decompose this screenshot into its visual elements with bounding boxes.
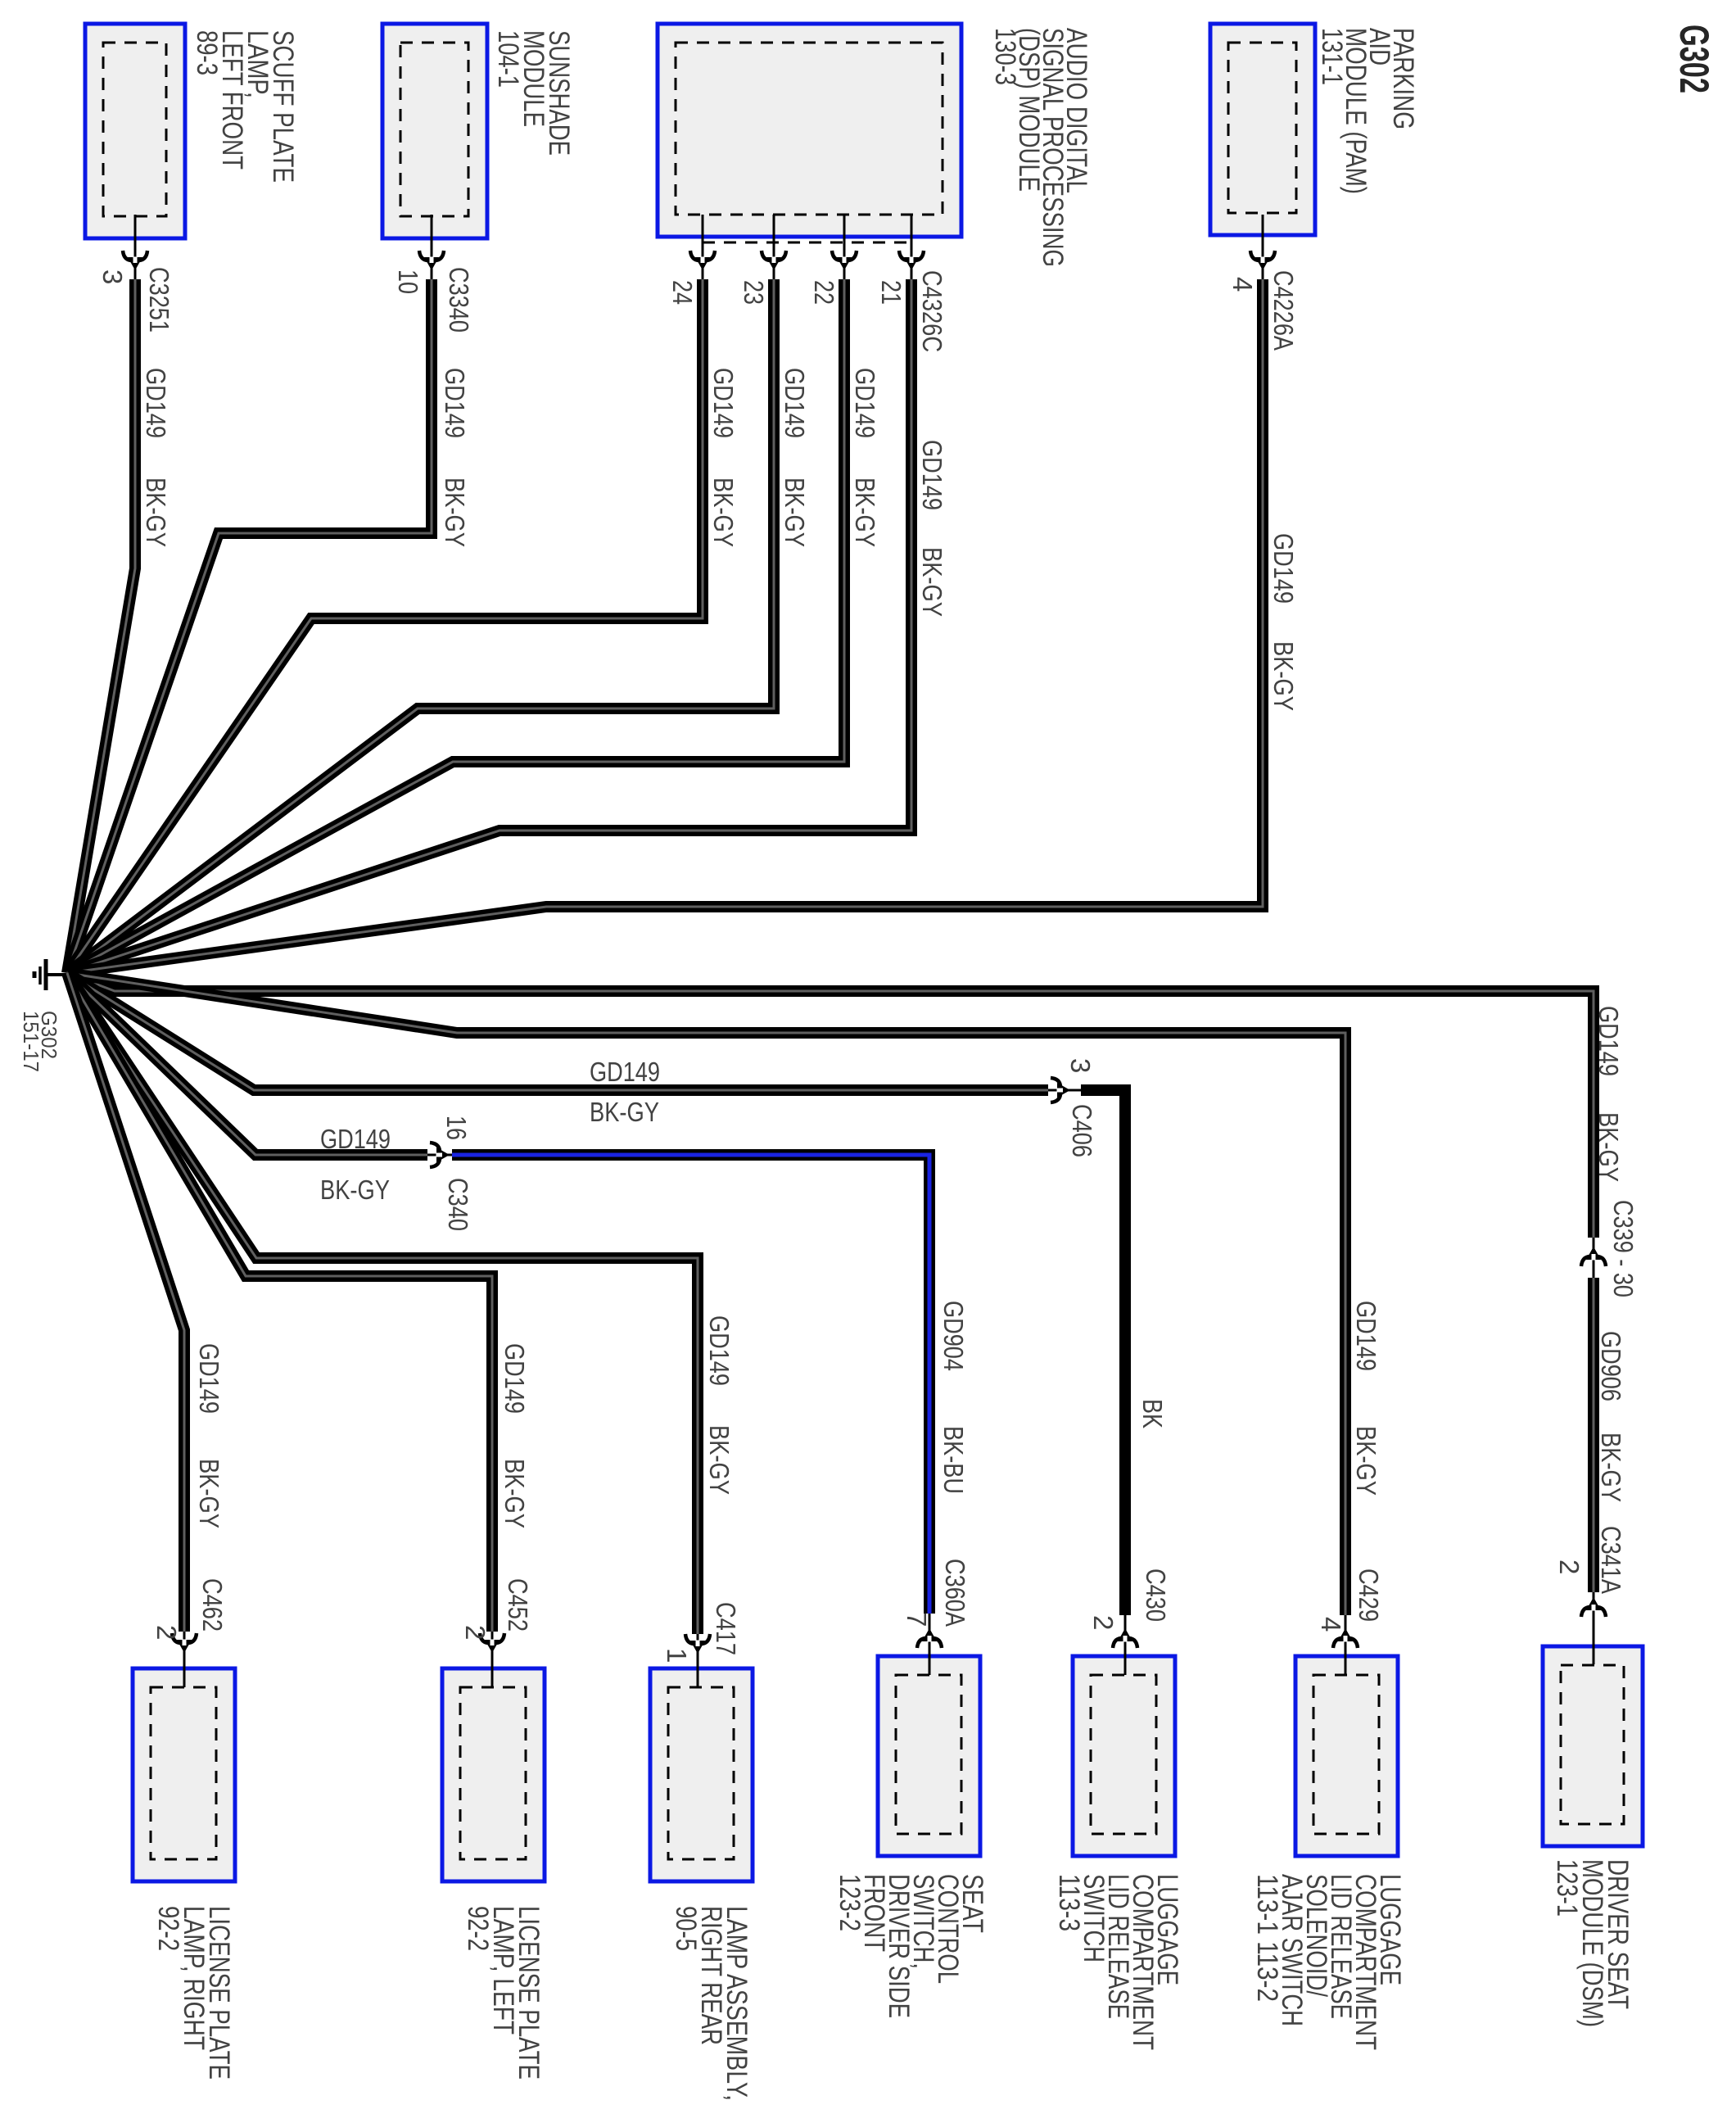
pin line C360A into seat switch box: [929, 1614, 931, 1675]
svg-text:C452: C452: [503, 1578, 533, 1632]
svg-text:7: 7: [902, 1612, 932, 1627]
label sunshade module: [492, 30, 575, 156]
svg-text:C430: C430: [1141, 1568, 1171, 1622]
svg-text:C462: C462: [197, 1578, 228, 1632]
ground G302 symbol: [34, 959, 67, 990]
label PAM module: [1316, 28, 1419, 194]
svg-text:BK-GY: BK-GY: [141, 478, 171, 547]
pin line C452 into license left box: [491, 1632, 494, 1687]
color BK-GY C429: [1351, 1426, 1381, 1496]
svg-text:C3251: C3251: [144, 267, 174, 333]
connector C341A: [1581, 1597, 1606, 1617]
pin line sunshade pin 10: [431, 215, 433, 279]
connector C4226A: [1250, 251, 1275, 270]
svg-text:10: 10: [393, 269, 423, 294]
wire GD149 BK-GY to DSP pin 23: [67, 279, 774, 973]
pin number 1 C417: [662, 1648, 692, 1663]
color BK-GY scuff: [141, 478, 171, 547]
pin line DSP pin 23: [773, 215, 775, 279]
connector label C462: [197, 1578, 228, 1632]
pin number 10 C3340: [393, 269, 423, 294]
svg-text:GD149: GD149: [320, 1124, 391, 1154]
connector label C452: [503, 1578, 533, 1632]
svg-text:22: 22: [809, 280, 839, 305]
module box: LUGGAGE LID RELEASE SOLENOID: [1295, 1656, 1398, 1856]
svg-text:2: 2: [1088, 1615, 1119, 1630]
wire GD149 BK-GY to DSP pin 21 (C4326C): [67, 279, 911, 973]
svg-text:GD149: GD149: [1351, 1301, 1381, 1371]
circuit GD149 scuff: [141, 368, 171, 438]
circuit GD149 DSP23: [780, 368, 810, 438]
connector C452: [480, 1633, 504, 1653]
color BK-GY DSP21: [917, 547, 947, 617]
label lamp assembly right rear: [670, 1906, 753, 2101]
connector label C4226A: [1268, 270, 1299, 351]
connector C360A: [917, 1628, 942, 1648]
svg-text:BK-GY: BK-GY: [1596, 1433, 1626, 1502]
wire GD149 BK-GY to C340: [67, 973, 427, 1155]
svg-text:GD906: GD906: [1596, 1331, 1626, 1401]
pin line C406 inline: [1048, 1089, 1081, 1092]
connector C339: [1581, 1247, 1606, 1266]
circuit GD149 C429: [1351, 1301, 1381, 1371]
pin number 23 DSP: [739, 280, 769, 305]
wire GD149 BK-GY to lamp assembly right rear (C417): [67, 973, 698, 1634]
wire GD149 BK-GY to scuff plate lamp (C3251): [67, 279, 135, 973]
svg-text:16: 16: [441, 1116, 472, 1140]
svg-text:GD149: GD149: [141, 368, 171, 438]
circuit GD149 sunshade: [440, 368, 470, 438]
svg-text:BK-GY: BK-GY: [1594, 1112, 1624, 1182]
svg-text:BK-BU: BK-BU: [938, 1426, 969, 1494]
wire GD149 BK-GY to license plate lamp left (C452): [67, 973, 492, 1632]
svg-text:C417: C417: [711, 1602, 741, 1655]
module box: SEAT CONTROL SWITCH: [878, 1656, 980, 1856]
pin line DSP pin 21: [911, 215, 913, 279]
pin line C462 into license right box: [183, 1632, 186, 1687]
connector label C360A: [940, 1559, 970, 1627]
pin number 2 C430: [1088, 1615, 1119, 1630]
pin line DSP pin 22: [843, 215, 846, 279]
module box: LICENSE PLATE LAMP LEFT: [442, 1668, 545, 1881]
connector label C430: [1141, 1568, 1171, 1622]
module box: LICENSE PLATE LAMP RIGHT: [133, 1668, 235, 1881]
svg-text:G302: G302: [1671, 25, 1717, 93]
svg-text:C339 - 30: C339 - 30: [1608, 1200, 1639, 1297]
svg-text:C360A: C360A: [940, 1559, 970, 1627]
label luggage lid solenoid: [1251, 1874, 1406, 2050]
svg-text:2: 2: [460, 1625, 491, 1640]
svg-text:GD149: GD149: [440, 368, 470, 438]
svg-text:C429: C429: [1354, 1568, 1384, 1622]
label driver seat module: [1551, 1859, 1634, 2027]
pin line PAM pin 4: [1262, 215, 1264, 279]
label DSP module: [989, 28, 1092, 267]
color BK C430 wire: [1137, 1399, 1168, 1428]
svg-text:23: 23: [739, 280, 769, 305]
pin line C430 into switch box: [1124, 1615, 1127, 1675]
circuit GD149 C462: [194, 1343, 224, 1414]
svg-text:C4226A: C4226A: [1268, 270, 1299, 351]
svg-text:GD904: GD904: [938, 1301, 969, 1371]
svg-text:BK-GY: BK-GY: [850, 478, 880, 547]
pin line DSP pin 24: [702, 215, 704, 279]
connector C430: [1113, 1628, 1137, 1648]
circuit GD149 DSP24: [708, 368, 739, 438]
pin number 21 DSP: [876, 280, 906, 305]
svg-text:GD149: GD149: [1268, 533, 1299, 604]
connector C429: [1333, 1628, 1358, 1648]
svg-text:C4326C: C4326C: [917, 270, 947, 352]
svg-text:3: 3: [1065, 1058, 1096, 1073]
connector C406: [1051, 1078, 1070, 1102]
wire GD149 BK-GY to DSP pin 24: [67, 279, 703, 973]
svg-text:GD149: GD149: [708, 368, 739, 438]
connector label C3340: [444, 267, 474, 333]
pin number 2 C341A: [1554, 1559, 1585, 1574]
label seat control switch: [834, 1874, 988, 2018]
circuit GD149 PAM: [1268, 533, 1299, 604]
svg-text:3: 3: [97, 269, 128, 284]
label license plate lamp left: [462, 1906, 545, 2080]
svg-text:C341A: C341A: [1596, 1526, 1626, 1594]
svg-text:BK-GY: BK-GY: [440, 478, 470, 547]
pin number 22 DSP: [809, 280, 839, 305]
color BK-BU: [938, 1426, 969, 1494]
module box: AUDIO DSP MODULE: [658, 24, 961, 237]
label scuff plate lamp: [191, 30, 299, 183]
svg-text:24: 24: [667, 280, 698, 305]
wire BK from C406 to luggage release switch (C430): [1081, 1090, 1125, 1615]
pin line C341A into DSM: [1593, 1592, 1595, 1664]
connector label C340: [443, 1178, 473, 1231]
label license plate lamp right: [152, 1906, 235, 2080]
color BK-GY DSP24: [708, 478, 739, 547]
pin line C339 inline: [1593, 1238, 1595, 1278]
connector C417: [685, 1634, 710, 1654]
svg-text:BK-GY: BK-GY: [917, 547, 947, 617]
connector C340: [430, 1143, 450, 1167]
svg-text:BK: BK: [1137, 1399, 1168, 1428]
color BK-GY DSP22: [850, 478, 880, 547]
connector label C3251: [144, 267, 174, 333]
wire GD149 BK-GY to C339 (driver seat module branch): [67, 973, 1594, 1238]
module box: LUGGAGE LID RELEASE SWITCH: [1073, 1656, 1175, 1856]
svg-text:BK-GY: BK-GY: [590, 1097, 659, 1127]
connector label C341A: [1596, 1526, 1626, 1594]
svg-text:GD149: GD149: [194, 1343, 224, 1414]
connector C462: [172, 1633, 197, 1653]
wire GD904 BK-BU from C340 to seat control switch (C360A): [452, 1155, 929, 1614]
wire GD149 BK-GY to PAM (C4226A): [67, 279, 1263, 973]
connector label C429: [1354, 1568, 1384, 1622]
pin number 4 PAM: [1227, 277, 1258, 292]
svg-text:BK-GY: BK-GY: [708, 478, 739, 547]
wire GD149 BK-GY to luggage lid solenoid (C429): [67, 973, 1345, 1615]
pin number 16 C340: [441, 1116, 472, 1140]
svg-text:21: 21: [876, 280, 906, 305]
connector C3251: [123, 251, 147, 270]
color BK-GY sunshade: [440, 478, 470, 547]
pin number 24 DSP: [667, 280, 698, 305]
connector C4326C pin 24: [690, 251, 715, 270]
pin number 2 C452: [460, 1625, 491, 1640]
pin number 2 C462: [151, 1625, 182, 1640]
color BK-GY GD906: [1596, 1433, 1626, 1502]
pin line C417 into lamp assembly box: [697, 1634, 699, 1687]
pin line scuff pin 3: [134, 215, 137, 279]
circuit GD149 C452: [500, 1343, 530, 1414]
label ground G302 151-17: [19, 1011, 61, 1072]
svg-text:GD149: GD149: [590, 1057, 660, 1087]
module box: SCUFF PLATE LAMP LEFT FRONT: [85, 24, 185, 238]
title G302: [1671, 25, 1717, 93]
svg-text:C406: C406: [1067, 1104, 1097, 1157]
wire GD149 BK-GY to sunshade module (C3340): [67, 279, 432, 973]
svg-text:BK-GY: BK-GY: [1268, 641, 1299, 711]
wire GD149 BK-GY to license plate lamp right (C462): [67, 973, 184, 1632]
circuit GD149 DSM branch: [1594, 1006, 1624, 1076]
color BK-GY DSM branch: [1594, 1112, 1624, 1182]
svg-text:GD149: GD149: [500, 1343, 530, 1414]
pin number 3 C406: [1065, 1058, 1096, 1073]
wire GD149 BK-GY to DSP pin 22: [67, 279, 844, 973]
connector label C339-30: [1608, 1200, 1639, 1297]
color BK-GY DSP23: [780, 478, 810, 547]
svg-text:BK-GY: BK-GY: [1351, 1426, 1381, 1496]
connector C4326C pin 22: [832, 251, 857, 270]
color BK-GY PAM: [1268, 641, 1299, 711]
svg-text:GD149: GD149: [917, 440, 947, 510]
svg-text:GD149: GD149: [850, 368, 880, 438]
module box: DRIVER SEAT MODULE: [1543, 1646, 1643, 1846]
pin line C429 into solenoid box: [1345, 1615, 1347, 1675]
pin number 7 C360A: [902, 1612, 932, 1627]
pin number 4 C429: [1316, 1617, 1346, 1632]
svg-text:BK-GY: BK-GY: [500, 1459, 530, 1528]
wire GD906 BK-GY from C339 to DSM (C341A): [1588, 1278, 1599, 1592]
connector C4326C pin 23: [762, 251, 786, 270]
svg-text:4: 4: [1316, 1617, 1346, 1632]
svg-text:2: 2: [151, 1625, 182, 1640]
svg-text:GD149: GD149: [780, 368, 810, 438]
svg-text:GD149: GD149: [704, 1315, 735, 1386]
svg-text:GD149: GD149: [1594, 1006, 1624, 1076]
connector label C417: [711, 1602, 741, 1655]
svg-text:C340: C340: [443, 1178, 473, 1231]
DSP pin bus dashed line: [703, 242, 911, 244]
pin number 3 C3251: [97, 269, 128, 284]
svg-text:BK-GY: BK-GY: [320, 1175, 390, 1205]
circuit GD904: [938, 1301, 969, 1371]
svg-text:BK-GY: BK-GY: [780, 478, 810, 547]
svg-text:4: 4: [1227, 277, 1258, 292]
color BK-GY C417: [704, 1425, 735, 1495]
svg-text:BK-GY: BK-GY: [704, 1425, 735, 1495]
circuit GD906: [1596, 1331, 1626, 1401]
module box: LAMP ASSEMBLY RIGHT REAR: [650, 1668, 753, 1881]
connector label C4326C: [917, 270, 947, 352]
connector label C406: [1067, 1104, 1097, 1157]
label luggage lid release switch: [1053, 1874, 1183, 2050]
color BK-GY C452: [500, 1459, 530, 1528]
svg-text:BK-GY: BK-GY: [194, 1459, 224, 1528]
svg-text:1: 1: [662, 1648, 692, 1663]
svg-text:2: 2: [1554, 1559, 1585, 1574]
circuit GD149 C417: [704, 1315, 735, 1386]
module box: SUNSHADE MODULE: [382, 24, 487, 238]
svg-text:C3340: C3340: [444, 267, 474, 333]
connector C3340: [419, 251, 444, 270]
wire GD149 BK-GY to C406: [67, 973, 1048, 1090]
color BK-GY C462: [194, 1459, 224, 1528]
circuit GD149 DSP22: [850, 368, 880, 438]
pin line C340 inline: [427, 1154, 452, 1157]
connector C4326C pin 21: [899, 251, 924, 270]
circuit GD149 DSP21: [917, 440, 947, 510]
module box: PARKING AID MODULE: [1210, 24, 1315, 235]
